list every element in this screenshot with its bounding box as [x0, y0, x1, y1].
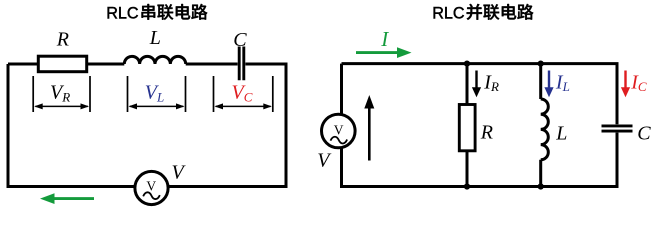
svg-text:I: I	[380, 27, 389, 51]
svg-text:R: R	[56, 29, 69, 51]
svg-text:L: L	[149, 27, 161, 49]
svg-text:C: C	[637, 122, 651, 144]
svg-text:RLC: RLC	[106, 4, 139, 22]
svg-text:RLC: RLC	[432, 4, 465, 22]
svg-text:C: C	[233, 29, 247, 51]
svg-text:L: L	[555, 122, 567, 144]
svg-text:R: R	[480, 122, 493, 144]
svg-text:V: V	[146, 178, 156, 193]
svg-text:V: V	[334, 122, 344, 137]
